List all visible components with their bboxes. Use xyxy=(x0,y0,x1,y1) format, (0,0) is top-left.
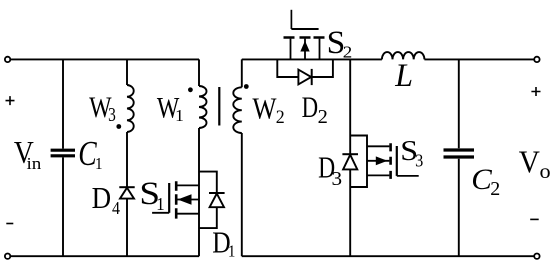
label W3 sub xyxy=(108,103,116,125)
terminal output + xyxy=(534,57,539,62)
transistor S1 xyxy=(152,181,199,218)
minus sign input xyxy=(6,223,13,225)
S1 source lead xyxy=(177,213,199,215)
minus sign output xyxy=(530,218,539,220)
node dot W1 polarity xyxy=(188,87,193,92)
wire W2 branch xyxy=(241,59,243,256)
S1 gate bar xyxy=(168,183,170,213)
wire C1 branch xyxy=(62,59,64,256)
S2 contact bars xyxy=(284,36,325,39)
wire W1 branch xyxy=(198,59,200,256)
label D1 D xyxy=(212,226,230,260)
label C2 sub xyxy=(490,178,500,200)
svg-text:2: 2 xyxy=(318,106,328,128)
winding W3 xyxy=(127,85,134,132)
label Vin sub xyxy=(26,154,41,173)
wire top-right rail xyxy=(242,58,535,60)
S3 gate lead xyxy=(397,175,419,177)
label Vo V xyxy=(519,144,540,179)
label S3 S xyxy=(400,134,418,166)
terminal input + xyxy=(5,57,10,62)
svg-text:1: 1 xyxy=(228,241,236,260)
S1 gate lead xyxy=(152,212,169,214)
svg-text:2: 2 xyxy=(343,42,353,61)
inductor L xyxy=(382,52,425,59)
S3 channel segments xyxy=(389,143,392,179)
svg-text:D: D xyxy=(92,181,111,215)
label S1 S xyxy=(139,175,160,212)
S3 source lead xyxy=(367,174,389,176)
diode D4 xyxy=(119,187,134,198)
S1 body lead + arrow xyxy=(177,199,199,201)
diode D2 xyxy=(298,69,311,85)
svg-text:in: in xyxy=(26,154,41,173)
svg-text:3: 3 xyxy=(108,103,116,125)
S1 channel segments xyxy=(175,181,178,218)
svg-text:1: 1 xyxy=(175,107,184,125)
S3 body lead + arrow xyxy=(367,160,389,162)
diode D1 parallel loop xyxy=(199,172,217,229)
diode D1 xyxy=(209,193,225,207)
svg-text:L: L xyxy=(394,57,413,93)
label D3 sub xyxy=(332,166,343,190)
transformer core xyxy=(218,87,220,126)
S3 gate bar xyxy=(396,146,398,176)
S2 body lead + arrow xyxy=(304,39,306,60)
label C2 C xyxy=(471,164,493,196)
plus sign output xyxy=(531,87,540,96)
S2 source lead xyxy=(319,39,321,60)
svg-text:3: 3 xyxy=(332,166,343,190)
S3 drain lead xyxy=(367,145,389,147)
plus sign input xyxy=(6,96,15,105)
node dot W3 polarity xyxy=(116,124,121,129)
svg-text:D: D xyxy=(302,90,318,124)
svg-text:V: V xyxy=(519,144,540,179)
label D2 D xyxy=(302,90,318,124)
label S3 sub xyxy=(415,151,423,171)
label Vin V xyxy=(14,136,34,170)
winding W2 xyxy=(233,87,242,133)
svg-text:o: o xyxy=(540,160,550,183)
label C1 C xyxy=(78,134,97,173)
wire S3/D3 branch xyxy=(349,59,351,256)
S2 gate bar xyxy=(291,28,318,30)
label S2 sub xyxy=(343,42,353,61)
label D3 D xyxy=(318,151,335,185)
S2 drain lead xyxy=(290,39,292,60)
wire C2 branch xyxy=(458,59,460,256)
label D1 sub xyxy=(228,241,236,260)
label W1 W xyxy=(157,91,180,124)
transistor S3 xyxy=(367,143,419,179)
winding W1 xyxy=(199,86,207,128)
diode D2 parallel loop xyxy=(277,59,333,77)
svg-text:4: 4 xyxy=(112,198,121,218)
label S2 S xyxy=(327,25,346,60)
label D4 sub xyxy=(112,198,121,218)
label S1 sub xyxy=(156,194,165,215)
svg-text:1: 1 xyxy=(156,194,165,215)
wire bottom-right rail xyxy=(242,255,535,257)
label W3 W xyxy=(89,91,112,124)
svg-text:3: 3 xyxy=(415,151,423,171)
label C1 sub xyxy=(95,153,103,173)
svg-text:W: W xyxy=(252,92,276,126)
label W2 W xyxy=(252,92,276,126)
capacitor C2 xyxy=(444,150,475,157)
diode D3 xyxy=(342,154,358,169)
terminal output - xyxy=(534,254,539,259)
wire W3 branch xyxy=(126,59,128,256)
svg-text:2: 2 xyxy=(490,178,500,200)
wire top-left rail xyxy=(10,58,199,60)
label D4 D xyxy=(92,181,111,215)
svg-text:1: 1 xyxy=(95,153,103,173)
label Vo sub xyxy=(540,160,550,183)
label W1 sub xyxy=(175,107,184,125)
terminal input - xyxy=(5,254,10,259)
label D2 sub xyxy=(318,106,328,128)
S2 gate lead xyxy=(290,10,292,29)
label W2 sub xyxy=(276,107,285,127)
transistor S2 xyxy=(284,10,325,60)
S1 drain lead xyxy=(177,184,199,186)
node dot W2 polarity xyxy=(244,84,249,89)
svg-text:2: 2 xyxy=(276,107,285,127)
transistor S3 parallel loop xyxy=(350,136,367,188)
label L xyxy=(394,57,413,93)
capacitor C1 xyxy=(51,150,75,156)
wire bottom-left rail xyxy=(10,255,199,257)
